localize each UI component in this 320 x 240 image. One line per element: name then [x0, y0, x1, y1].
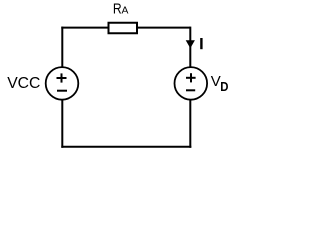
resistor RA	[109, 23, 138, 34]
label I	[200, 38, 202, 49]
svg-text:R: R	[113, 2, 122, 18]
current arrow I	[186, 40, 195, 48]
VCC plus sign	[57, 77, 67, 79]
VD minus sign	[186, 89, 195, 91]
svg-text:D: D	[220, 80, 228, 94]
wire left vertical bottom (VCC bottom lead)	[61, 100, 63, 148]
source VCC circle	[46, 67, 79, 100]
svg-text:VCC: VCC	[7, 75, 40, 92]
wire bottom	[61, 146, 191, 148]
VD plus sign	[186, 77, 196, 79]
wire left vertical (VCC top lead)	[61, 27, 63, 68]
source VD circle	[175, 67, 208, 100]
wire top (node between VCC and RA, RA and VD)	[61, 27, 190, 29]
wire right vertical bottom (VD bottom lead)	[189, 100, 191, 148]
svg-text:A: A	[122, 6, 129, 17]
wire right vertical (VD top lead)	[189, 27, 191, 68]
VCC minus sign	[57, 90, 67, 92]
